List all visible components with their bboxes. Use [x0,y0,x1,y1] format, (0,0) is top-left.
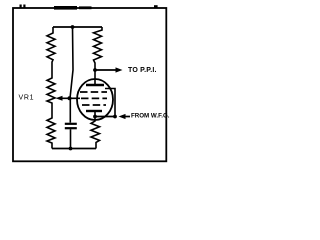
wire ground rail [52,148,96,150]
tube V1 envelope [77,79,113,120]
node cathode junction dot [93,115,97,119]
svg-text:VR1: VR1 [19,95,35,102]
wire suppressor tie to cathode line [105,89,115,117]
tube grid 2 (dashed) [81,97,107,99]
wire cathode rail [95,116,115,118]
tube grid 3 (dashed) [82,104,106,106]
border frame of figure [13,8,166,161]
wiper arrow of VR1 [56,96,63,101]
wire to P.P.I. with arrow [95,69,116,71]
tube cathode [86,110,102,112]
svg-text:TO P.P.I.: TO P.P.I. [128,67,157,74]
wire grid-rail (top horizontal wire) [53,26,102,28]
node grid junction dot [68,96,72,100]
wire plate lead [94,70,96,85]
wire cathode lead [94,111,96,117]
tube plate [86,84,104,86]
node junction dot on grid rail [71,25,75,29]
tube grid 1 (dashed) [80,91,107,93]
node dot at ground rail [69,147,73,151]
capacitor C1 [65,123,77,125]
wire grid node down to capacitor [69,98,71,122]
node plate junction dot [93,68,97,72]
node dot suppressor/cathode junction [113,115,117,119]
wire grid vertical (rail to grid node) [70,27,73,98]
resistor plate load [94,27,103,70]
wire wiper to grid node [61,97,80,99]
arrow from W.F.G. input [119,114,126,119]
wire capacitor to ground rail [70,129,72,148]
svg-text:FROM W.F.G.: FROM W.F.G. [131,113,170,120]
resistor cathode [91,117,100,149]
potentiometer VR1 body [47,27,55,149]
